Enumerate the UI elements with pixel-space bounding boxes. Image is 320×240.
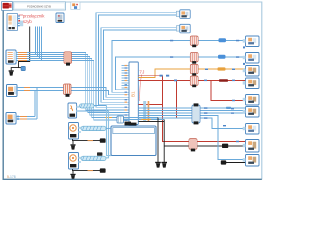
svg-text:przełącznik: przełącznik xyxy=(23,13,45,18)
svg-text:5-178: 5-178 xyxy=(7,175,16,179)
svg-text:szyb: szyb xyxy=(23,19,32,24)
svg-text:7J: 7J xyxy=(139,69,145,75)
svg-text:B1: B1 xyxy=(131,91,136,97)
svg-text:PODNOSNIKI SZYB: PODNOSNIKI SZYB xyxy=(27,4,51,8)
